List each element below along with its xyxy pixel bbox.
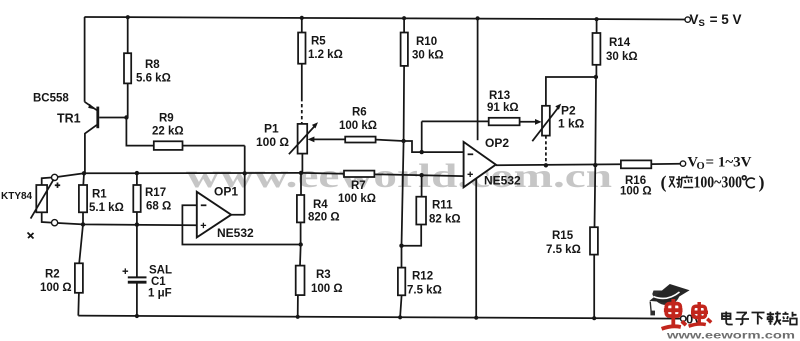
junction P2 bottom bbox=[544, 163, 548, 167]
glyph ying bbox=[681, 176, 694, 188]
resistor R16 bbox=[621, 160, 651, 168]
junction R1 bottom bbox=[81, 222, 85, 226]
logo text dianzi xiazaizhan bbox=[722, 311, 797, 325]
svg-text:5.1 kΩ: 5.1 kΩ bbox=[89, 202, 124, 214]
junction top rail / R10 bbox=[402, 16, 406, 20]
junction R6/R10/OP2 minus bbox=[401, 139, 405, 143]
svg-text:30 kΩ: 30 kΩ bbox=[606, 51, 638, 63]
svg-text:30 kΩ: 30 kΩ bbox=[412, 50, 444, 62]
resistor R13 bbox=[422, 118, 542, 126]
terminal VO bbox=[680, 161, 685, 166]
wire R13 branch up bbox=[421, 121, 423, 152]
resistor R11 bbox=[402, 175, 427, 246]
svg-text:R10: R10 bbox=[416, 36, 437, 48]
wire sensor top to node A bbox=[58, 173, 84, 177]
glyph zi bbox=[736, 313, 750, 325]
svg-text:R9: R9 bbox=[159, 113, 174, 125]
wire OP2 supply line lower bbox=[475, 178, 477, 318]
svg-text:NE532: NE532 bbox=[217, 226, 254, 240]
svg-text:100 kΩ: 100 kΩ bbox=[338, 193, 376, 205]
resistor R10 bbox=[401, 18, 408, 141]
junction P1/R4 column bbox=[299, 171, 303, 175]
potentiometer P1 bbox=[289, 122, 345, 173]
logo bug chong 1 bbox=[662, 299, 686, 329]
svg-text:R14: R14 bbox=[609, 37, 631, 49]
svg-text:R4: R4 bbox=[313, 199, 328, 211]
svg-text:100~300: 100~300 bbox=[694, 173, 743, 192]
svg-text:VS = 5 V: VS = 5 V bbox=[690, 12, 742, 29]
resistor R6 bbox=[345, 137, 403, 143]
resistor R7 bbox=[344, 171, 374, 177]
svg-text:82 kΩ: 82 kΩ bbox=[429, 214, 461, 226]
transistor Q TR1 (BC558 pnp) bbox=[85, 102, 127, 174]
svg-text:SAL: SAL bbox=[149, 265, 172, 277]
svg-text:O: O bbox=[697, 161, 705, 172]
potentiometer P2 bbox=[532, 77, 596, 165]
svg-text:5.6 kΩ: 5.6 kΩ bbox=[136, 73, 171, 85]
svg-text:OP1: OP1 bbox=[214, 185, 238, 199]
glyph zai bbox=[767, 311, 781, 325]
svg-text:1 μF: 1 μF bbox=[148, 288, 172, 300]
svg-text:BC558: BC558 bbox=[33, 93, 69, 105]
svg-text:TR1: TR1 bbox=[57, 112, 81, 126]
wire jog to OP2 inverting input bbox=[404, 141, 464, 152]
resistor R12 bbox=[398, 246, 405, 318]
svg-text:NE532: NE532 bbox=[484, 174, 521, 188]
wire OP2 supply line upper bbox=[477, 18, 479, 140]
junction R11 top bbox=[419, 173, 423, 177]
svg-text:91 kΩ: 91 kΩ bbox=[487, 102, 519, 114]
capacitor C1 bbox=[123, 268, 147, 316]
svg-text:R6: R6 bbox=[352, 107, 367, 119]
wire top supply rail bbox=[84, 17, 685, 20]
junction OP1 output column bbox=[243, 171, 247, 175]
resistor R5 bbox=[298, 18, 305, 124]
svg-text:R15: R15 bbox=[552, 230, 574, 242]
node A junction collector/sensor/R1 bbox=[82, 171, 86, 175]
svg-text:100 Ω: 100 Ω bbox=[311, 283, 343, 295]
svg-text:1.2 kΩ: 1.2 kΩ bbox=[308, 49, 343, 61]
svg-text:R5: R5 bbox=[311, 36, 326, 48]
svg-text:www.eeworm.com: www.eeworm.com bbox=[666, 330, 795, 341]
junction R4/R3 feedback node bbox=[299, 242, 303, 246]
svg-text:R13: R13 bbox=[489, 90, 510, 102]
svg-text:R1: R1 bbox=[92, 189, 107, 201]
svg-text:P1: P1 bbox=[264, 122, 279, 136]
glyph xia bbox=[752, 313, 765, 325]
resistor R2 bbox=[75, 224, 83, 315]
svg-text:R8: R8 bbox=[145, 59, 160, 71]
svg-text:100 kΩ: 100 kΩ bbox=[339, 120, 377, 132]
label VO range chinese bbox=[661, 172, 765, 193]
svg-text:7.5 kΩ: 7.5 kΩ bbox=[407, 285, 442, 297]
terminal VS bbox=[685, 17, 690, 22]
glyph zhan bbox=[782, 312, 796, 325]
resistor R1 bbox=[79, 173, 87, 224]
wire long node-A line to OP2 plus input bbox=[84, 173, 464, 176]
svg-text:OP2: OP2 bbox=[485, 136, 509, 150]
sensor KTY84 bbox=[28, 174, 61, 238]
glyph celsius bbox=[742, 176, 755, 188]
wire sensor bottom to OP1 plus bbox=[58, 223, 197, 225]
wire TR1 emitter to rail bbox=[84, 17, 86, 102]
junction rail C1 bbox=[135, 314, 139, 318]
glyph dui bbox=[669, 176, 682, 188]
svg-text:): ) bbox=[759, 172, 765, 193]
op-amp U OP1 bbox=[197, 192, 231, 238]
junction R17 column bbox=[135, 222, 139, 226]
terminal 0V bbox=[681, 316, 686, 321]
svg-text:R11: R11 bbox=[432, 200, 453, 212]
resistor R9 bbox=[126, 118, 244, 150]
junction R13 branch bbox=[420, 150, 424, 154]
resistor R3 bbox=[296, 245, 305, 317]
resistor R14 bbox=[593, 19, 601, 165]
resistor R4 bbox=[297, 173, 304, 245]
svg-text:R12: R12 bbox=[412, 271, 433, 283]
svg-text:7.5 kΩ: 7.5 kΩ bbox=[546, 244, 581, 256]
svg-text:820 Ω: 820 Ω bbox=[308, 212, 340, 224]
logo graduation cap bbox=[649, 284, 689, 315]
resistor R17 bbox=[133, 173, 140, 277]
svg-text:100 Ω: 100 Ω bbox=[256, 135, 289, 149]
wire OP1 output bbox=[231, 146, 245, 215]
svg-text:= 1~3V: = 1~3V bbox=[706, 155, 753, 171]
svg-text:R3: R3 bbox=[316, 269, 331, 281]
svg-text:68 Ω: 68 Ω bbox=[146, 201, 171, 213]
svg-text:100 Ω: 100 Ω bbox=[620, 186, 652, 198]
junction top rail / R14 bbox=[595, 17, 599, 21]
svg-text:KTY84: KTY84 bbox=[1, 191, 33, 202]
junction top rail / R5 bbox=[300, 16, 304, 20]
label VO = 1~3V bbox=[688, 155, 753, 173]
junction rail R15 bbox=[592, 316, 596, 320]
resistor R15 bbox=[590, 165, 598, 318]
svg-text:100 Ω: 100 Ω bbox=[40, 282, 72, 294]
svg-text:R17: R17 bbox=[145, 187, 166, 199]
junction base node bbox=[124, 115, 128, 119]
svg-text:P2: P2 bbox=[561, 104, 576, 118]
svg-text:22 kΩ: 22 kΩ bbox=[152, 126, 184, 138]
logo bug chong 2 bbox=[689, 302, 712, 326]
svg-text:1 kΩ: 1 kΩ bbox=[558, 117, 585, 131]
wire R7 line through bbox=[0, 173, 344, 175]
junction R14/R15 output node bbox=[593, 163, 597, 167]
svg-text:C1: C1 bbox=[151, 276, 166, 288]
svg-text:R2: R2 bbox=[45, 269, 60, 281]
resistor R8 bbox=[124, 17, 131, 117]
wire OP1 inverting input feedback bbox=[182, 205, 300, 244]
junction R11/R12 node bbox=[399, 244, 403, 248]
junction P2 top / R14 bbox=[594, 75, 598, 79]
wire bottom ground rail bbox=[78, 316, 680, 319]
op-amp U OP2 bbox=[464, 142, 496, 187]
svg-text:www.eeworld.com.cn: www.eeworld.com.cn bbox=[186, 158, 612, 195]
wire OP2 output line bbox=[496, 164, 681, 165]
junction rail R3 bbox=[296, 315, 300, 319]
junction top rail / R8 bbox=[126, 15, 130, 19]
wire R10 column down to R12 bbox=[402, 141, 404, 246]
junction rail R12 bbox=[398, 315, 402, 319]
svg-text:(: ( bbox=[661, 172, 667, 193]
junction R17 top bbox=[135, 171, 139, 175]
glyph dian bbox=[722, 312, 733, 325]
svg-text:R7: R7 bbox=[351, 180, 366, 192]
junction top rail / OP2 supply line bbox=[476, 16, 480, 20]
junction rail OP2 supply bbox=[474, 316, 478, 320]
